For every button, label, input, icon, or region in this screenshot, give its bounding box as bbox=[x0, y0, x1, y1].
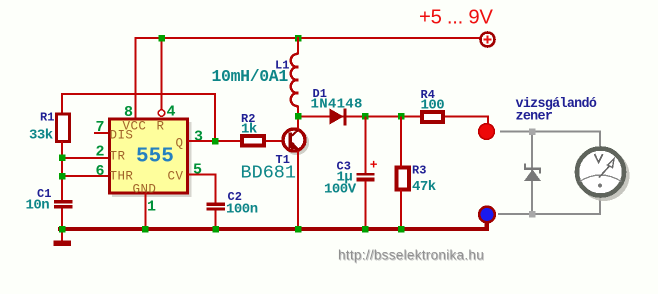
value 1u bbox=[337, 170, 353, 186]
wire: pin 4 R drop bbox=[161, 37, 163, 110]
polarity + for C3 bbox=[370, 158, 378, 173]
inductor L1 bbox=[291, 37, 299, 117]
svg-text:3: 3 bbox=[194, 129, 203, 146]
555 pin label VCC bbox=[123, 120, 147, 134]
node: junction R1/pin6 bbox=[59, 173, 66, 180]
pin number 7 bbox=[96, 119, 105, 136]
pin number 3 bbox=[194, 129, 203, 146]
ground bbox=[54, 229, 72, 246]
node: rail junction pin1 bbox=[142, 226, 149, 233]
wire: R1 bottom down to C1 bbox=[61, 141, 63, 201]
wire: C3 bottom to rail bbox=[365, 181, 367, 229]
svg-text:+5 ... 9V: +5 ... 9V bbox=[419, 7, 493, 29]
label D1 bbox=[313, 87, 327, 101]
svg-text:10mH/0A1: 10mH/0A1 bbox=[212, 67, 289, 86]
wire: feedback Q to R1 top, horizontal y=94 bbox=[62, 94, 215, 140]
node: junction C3 top bbox=[362, 113, 369, 120]
label C3 bbox=[337, 160, 351, 174]
svg-text:1: 1 bbox=[147, 199, 156, 216]
node: junction top rail / pin4 bbox=[159, 35, 166, 42]
svg-text:R3: R3 bbox=[412, 164, 426, 178]
voltmeter bbox=[577, 149, 630, 202]
resistor R2 bbox=[242, 136, 264, 146]
pin number 8 bbox=[124, 104, 133, 121]
label R4 bbox=[421, 88, 435, 102]
wire: C1 bottom to rail bbox=[61, 209, 63, 230]
supply label +5 ... 9V bbox=[419, 7, 493, 29]
value 33k bbox=[29, 128, 53, 144]
pin number 6 bbox=[96, 163, 105, 180]
node: gray junction bottom bbox=[529, 211, 536, 218]
terminal B (blue, cathode) bbox=[479, 207, 495, 223]
svg-text:8: 8 bbox=[124, 104, 133, 121]
resistor R1 bbox=[57, 114, 70, 142]
svg-text:THR: THR bbox=[110, 170, 134, 184]
label vizsgalando zener bbox=[516, 97, 597, 125]
wire: pin 8 VCC drop bbox=[135, 37, 137, 118]
resistor R3 bbox=[397, 168, 410, 190]
label L1 bbox=[275, 59, 289, 73]
power terminal +5..9V bbox=[481, 33, 495, 47]
555 pin label CV bbox=[168, 170, 184, 184]
wire: pin 3 Q output bbox=[188, 140, 241, 142]
value 10n bbox=[26, 198, 50, 214]
svg-text:47k: 47k bbox=[412, 179, 436, 195]
node: rail junction emitter bbox=[295, 226, 302, 233]
node: junction L1/collector/D1 bbox=[295, 113, 302, 120]
node: gray junction top bbox=[529, 128, 536, 135]
node: junction top rail / L1 bbox=[295, 35, 302, 42]
wire: +V top rail bbox=[135, 37, 481, 39]
wire: R3 bottom to rail bbox=[400, 190, 402, 230]
node: junction R3 top bbox=[398, 113, 405, 120]
value 1k bbox=[241, 122, 257, 138]
svg-text:zener: zener bbox=[516, 110, 553, 125]
svg-text:100n: 100n bbox=[226, 202, 258, 218]
diode D1 bbox=[330, 109, 347, 126]
svg-text:TR: TR bbox=[110, 150, 126, 164]
op-amp U1: 555 timer box bbox=[110, 119, 192, 197]
svg-text:6: 6 bbox=[96, 163, 105, 180]
label C1 bbox=[37, 187, 51, 201]
wire: R4 to terminal corner bbox=[445, 117, 488, 125]
svg-text:GND: GND bbox=[133, 183, 157, 197]
svg-text:10n: 10n bbox=[26, 198, 50, 214]
terminal A (red, anode) bbox=[479, 124, 495, 140]
svg-text:Q: Q bbox=[176, 137, 184, 151]
capacitor C3 bbox=[357, 173, 375, 182]
pin number 5 bbox=[193, 162, 202, 179]
svg-text:1k: 1k bbox=[241, 122, 257, 138]
svg-text:R: R bbox=[157, 120, 165, 134]
wire: C3 top bbox=[365, 117, 367, 173]
node: rail junction C1 bbox=[59, 226, 66, 233]
ground rail (bottom) bbox=[58, 222, 489, 232]
value 10mH/0A1 bbox=[212, 67, 289, 86]
label T1 bbox=[276, 153, 290, 167]
svg-text:BD681: BD681 bbox=[241, 163, 297, 184]
value BD681 bbox=[241, 163, 297, 184]
wire: R2 to base bbox=[266, 140, 290, 142]
wire: gray top to meter bbox=[500, 132, 600, 147]
wire: C2 bottom to rail bbox=[215, 211, 217, 230]
wire: gray bottom to meter bbox=[498, 198, 600, 214]
wire: emitter down to rail bbox=[297, 151, 299, 229]
wire: pin 1 GND to rail bbox=[145, 193, 147, 229]
svg-text:100: 100 bbox=[421, 98, 445, 114]
pin number 2 bbox=[96, 144, 105, 161]
svg-text:555: 555 bbox=[136, 146, 174, 169]
svg-text:100V: 100V bbox=[324, 182, 357, 198]
transistor T1 bbox=[283, 129, 309, 155]
pin 4 inversion circle bbox=[158, 110, 164, 116]
555 pin label GND bbox=[133, 183, 157, 197]
svg-text:http://bsselektronika.hu: http://bsselektronika.hu bbox=[338, 248, 484, 263]
label R1 bbox=[40, 111, 54, 125]
capacitor C2 bbox=[207, 203, 226, 211]
label R2 bbox=[241, 112, 255, 126]
wire: zener branch vertical bbox=[531, 132, 533, 215]
svg-text:33k: 33k bbox=[29, 128, 53, 144]
svg-text:R1: R1 bbox=[40, 111, 54, 125]
555 pin label R bbox=[157, 120, 165, 134]
wire: R3 top bbox=[400, 117, 402, 168]
capacitor C1 bbox=[54, 200, 73, 208]
label C2 bbox=[228, 190, 242, 204]
value 100n bbox=[226, 202, 258, 218]
node: rail junction C3 bbox=[362, 226, 369, 233]
svg-text:5: 5 bbox=[193, 162, 202, 179]
555 pin label TR bbox=[110, 150, 126, 164]
wire: D1 rail horizontal bbox=[298, 116, 488, 118]
zener diode under test bbox=[524, 164, 541, 182]
wire: pin 6 THR bbox=[62, 175, 108, 177]
wire: pin 5 CV to C2 bbox=[188, 175, 216, 203]
555 pin label THR bbox=[110, 170, 134, 184]
pin number 1 bbox=[147, 199, 156, 216]
wire: pin 2 TR bbox=[62, 157, 108, 159]
555 pin label Q bbox=[176, 137, 184, 151]
svg-text:7: 7 bbox=[96, 119, 105, 136]
node: junction R1/pin2 bbox=[59, 155, 66, 162]
svg-text:CV: CV bbox=[168, 170, 184, 184]
label R3 bbox=[412, 164, 426, 178]
svg-text:DIS: DIS bbox=[110, 129, 134, 143]
svg-text:4: 4 bbox=[167, 104, 176, 121]
value 100 bbox=[421, 98, 445, 114]
svg-text:2: 2 bbox=[96, 144, 105, 161]
svg-text:+: + bbox=[370, 158, 378, 173]
value 47k bbox=[412, 179, 436, 195]
node: rail junction C2 bbox=[212, 226, 219, 233]
value 1N4148 bbox=[311, 97, 363, 113]
555 pin label DIS bbox=[110, 129, 134, 143]
pin number 4 bbox=[167, 104, 176, 121]
555 device value bbox=[136, 146, 174, 169]
node: junction Q/feedback bbox=[212, 138, 219, 145]
svg-text:1N4148: 1N4148 bbox=[311, 97, 363, 113]
resistor R4 bbox=[422, 112, 443, 122]
watermark url bbox=[338, 248, 485, 264]
wire: collector up bbox=[297, 117, 299, 130]
value 100V bbox=[324, 182, 357, 198]
wire: pin 7 DIS stub bbox=[94, 132, 108, 134]
node: rail junction R3 bbox=[398, 226, 405, 233]
